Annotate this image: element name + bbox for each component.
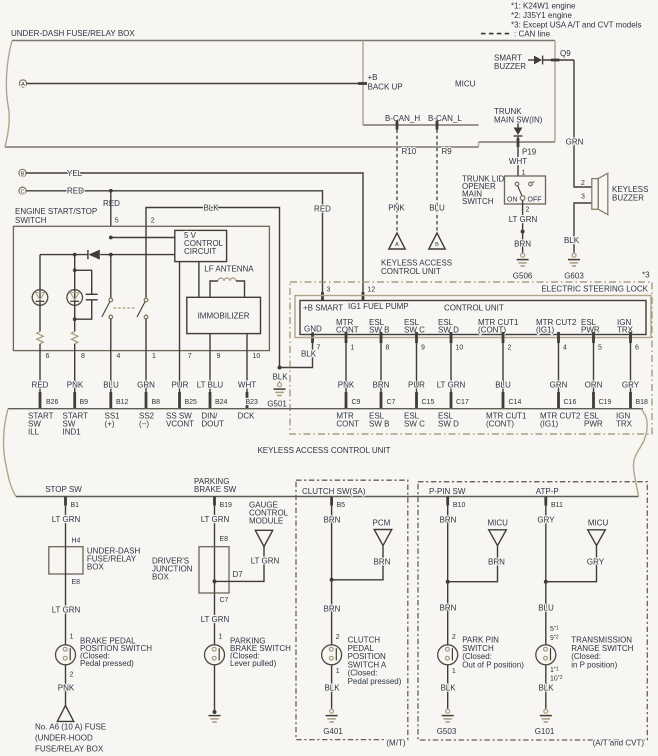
svg-text:PNK: PNK [388,204,405,213]
wire LT GRN to parking brake switch [214,593,216,645]
svg-text:CONTROL UNIT: CONTROL UNIT [381,267,441,276]
svg-text:B19: B19 [220,502,233,509]
svg-text:BRN: BRN [440,604,457,613]
B-CAN_H connector stub R10 [396,121,399,130]
ground G503 [442,708,454,722]
svg-text:PWR: PWR [584,420,603,429]
svg-text:BUZZER: BUZZER [494,62,526,71]
svg-text:B9: B9 [80,399,89,406]
svg-text:Pedal pressed): Pedal pressed) [80,659,134,668]
under-dash fuse/relay box outline (wavy left edge) [5,41,555,148]
svg-text:P19: P19 [522,148,537,157]
svg-text:1: 1 [452,668,456,675]
svg-text:B10: B10 [453,502,466,509]
svg-text:SW C: SW C [404,420,425,429]
svg-text:DOUT: DOUT [201,420,224,429]
svg-text:C7: C7 [387,399,396,406]
svg-text:LT GRN: LT GRN [52,515,81,524]
svg-text:7: 7 [188,353,192,360]
engine start/stop switch box [13,226,269,350]
svg-text:CONTROL UNIT: CONTROL UNIT [444,304,504,313]
svg-text:3: 3 [327,286,331,293]
svg-text:KEYLESS ACCESS CONTROL UNIT: KEYLESS ACCESS CONTROL UNIT [257,446,390,455]
svg-text:SWITCH: SWITCH [15,216,47,225]
ESL control unit outer box [295,296,651,338]
svg-text:2: 2 [70,672,74,679]
wire GRY atp-p [545,506,547,645]
node B [19,169,26,176]
M/T dashed box [296,480,408,739]
svg-text:LT GRN: LT GRN [201,515,230,524]
svg-text:VCONT: VCONT [166,420,194,429]
svg-text:PNK: PNK [67,381,84,390]
svg-text:G503: G503 [437,727,457,736]
svg-text:2: 2 [336,634,340,641]
svg-text:10*2: 10*2 [550,675,563,683]
svg-text:G603: G603 [564,272,584,281]
svg-text:BRAKE SW: BRAKE SW [194,485,237,494]
svg-text:SW C: SW C [404,326,425,335]
svg-text:ELECTRIC STEERING LOCK: ELECTRIC STEERING LOCK [541,285,648,294]
svg-text:BLU: BLU [103,381,119,390]
transmission range switch [536,645,556,665]
svg-text:10: 10 [253,353,261,360]
MICU triangle (p-pin) [489,530,507,546]
svg-text:*1: K24W1 engine: *1: K24W1 engine [511,1,576,10]
svg-text:Lever pulled): Lever pulled) [230,659,277,668]
switch gang dashed link [114,307,137,309]
svg-text:G101: G101 [535,727,555,736]
svg-text:2: 2 [508,345,512,352]
svg-text:(A/T and CVT): (A/T and CVT) [593,739,645,748]
wire BLK to G401 [331,665,333,708]
wire to gauge control module [215,547,265,582]
svg-text:6: 6 [46,353,50,360]
switch contact set 2 (pin2/pin1) [145,226,147,298]
svg-text:BRN: BRN [440,515,457,524]
PCM triangle [374,530,392,546]
splice junction G501 [278,366,282,370]
park pin switch [438,645,458,665]
svg-text:B12: B12 [116,399,129,406]
svg-text:R9: R9 [442,147,453,156]
svg-text:B-CAN_H: B-CAN_H [385,114,420,123]
svg-text:MICU: MICU [588,519,609,528]
splice dot clutch [330,578,334,582]
svg-text:STOP SW: STOP SW [45,485,82,494]
wire BRN to PCM [332,546,383,580]
pin 5 column ESL PWR [592,332,595,343]
svg-text:8: 8 [81,353,85,360]
svg-text:PUR: PUR [172,381,189,390]
CAN line legend dashes [481,33,510,35]
wire YEL from node B to ESL pin 12 [26,173,363,301]
svg-text:2: 2 [526,207,530,214]
wires engine switch to keyless connector [39,351,41,409]
svg-text:GRY: GRY [587,558,605,567]
svg-text:5: 5 [598,345,602,352]
chassis ground (parking brake) [209,710,221,722]
svg-text:G501: G501 [267,400,287,409]
pin 9 column ESL SW C [415,332,418,343]
svg-text:G506: G506 [513,272,533,281]
svg-text:C17: C17 [456,399,469,406]
svg-text:GRY: GRY [622,381,640,390]
pin 8 column ESL SW B [380,332,383,343]
svg-text:PNK: PNK [338,381,355,390]
electric steering lock dash-dot box [290,282,652,434]
svg-text:1: 1 [219,634,223,641]
svg-text:No. A6 (10 A) FUSE: No. A6 (10 A) FUSE [35,723,106,732]
svg-text:10: 10 [456,345,464,352]
ground G603 [568,252,580,266]
node A [19,80,26,87]
svg-text:+B: +B [368,73,378,82]
fuse destination triangle [57,706,73,722]
trunk main switch diode [517,124,519,128]
svg-text:GRN: GRN [566,137,584,146]
wire RED from node C to ESL pin 3 [26,191,322,301]
wire A to +B BACK UP [27,83,363,85]
connector triangle A [389,233,405,249]
svg-text:D7: D7 [233,570,244,579]
wire Q9 [543,59,574,61]
svg-text:SW B: SW B [369,326,389,335]
IMMOBILIZER box U [187,297,261,333]
wire RED to pin 5 [110,191,112,227]
svg-text:7: 7 [317,345,321,352]
gauge control module triangle [255,530,272,546]
pin 6 column IGN TRX [629,332,632,343]
svg-text:BRN: BRN [373,381,390,390]
svg-text:BLK: BLK [564,236,580,245]
splice dot trunk circuit [521,230,525,234]
svg-text:2: 2 [581,180,585,187]
svg-text:IG1 FUEL PUMP: IG1 FUEL PUMP [348,302,409,311]
svg-text:BLK: BLK [272,373,288,382]
svg-text:(UNDER-HOOD: (UNDER-HOOD [35,734,93,743]
svg-text:8: 8 [386,345,390,352]
resistor R (LED2) [71,332,78,344]
MICU sub-box partition [362,41,364,126]
svg-text:ORN: ORN [585,381,603,390]
svg-text:PWR: PWR [581,326,600,335]
connector stub B10 [446,497,449,506]
svg-text:CONT: CONT [336,420,359,429]
svg-text:BRN: BRN [514,240,531,249]
svg-text:BLK: BLK [324,684,340,693]
wire 5V box to pin 7 [179,262,181,351]
splice dot D7 [213,579,217,583]
svg-text:LT GRN: LT GRN [201,615,230,624]
connector stub at MICU edge [358,82,367,85]
keyless box bottom edge [16,496,639,498]
svg-text:B25: B25 [185,399,198,406]
B-CAN_L connector stub R9 [436,121,439,130]
under-dash fuse/relay box (fuse H4/E8) [49,547,83,574]
svg-text:GRN: GRN [137,381,155,390]
svg-text:YEL: YEL [67,169,83,178]
capacitor C [86,293,98,295]
svg-text:UNDER-DASH FUSE/RELAY BOX: UNDER-DASH FUSE/RELAY BOX [11,29,135,38]
svg-text:BRN: BRN [374,558,391,567]
wire PNK to fuse [65,665,67,706]
svg-text:LT GRN: LT GRN [251,557,280,566]
parking brake switch [205,645,225,665]
svg-text:CIRCUIT: CIRCUIT [184,247,217,256]
keyless buzzer pin3 wire [574,203,592,252]
svg-text:MODULE: MODULE [249,516,283,525]
svg-text:B8: B8 [152,399,161,406]
svg-text:A: A [21,82,25,88]
svg-text:2: 2 [452,634,456,641]
wire BRN to G506 [522,232,524,253]
svg-text:GRY: GRY [537,515,555,524]
CAN wire R10 (dashed) [396,130,398,234]
svg-text:PCM: PCM [373,519,391,528]
svg-text:B5: B5 [337,502,346,509]
svg-text:9: 9 [421,345,425,352]
wire to LED2 [74,255,76,332]
wire GRY to MICU [546,546,597,582]
svg-text:BRN: BRN [324,605,341,614]
svg-text:RED: RED [67,187,84,196]
svg-text:SW D: SW D [438,420,459,429]
svg-text:B26: B26 [46,399,59,406]
svg-text:1: 1 [152,353,156,360]
svg-text:OFF: OFF [528,197,542,204]
svg-text:*2: J35Y1 engine: *2: J35Y1 engine [511,11,572,20]
clutch pedal position switch A [322,645,342,665]
resistor R (LED1) [37,332,44,344]
ground G101 [540,708,552,722]
wire to chassis ground [214,665,216,712]
svg-text:B11: B11 [551,502,563,509]
keyless buzzer speaker symbol [592,179,598,210]
connector stub ESL pin 3 [321,292,324,301]
svg-text:E8: E8 [72,579,81,586]
svg-text:BLU: BLU [429,204,445,213]
connector stub Q9 [551,59,560,62]
svg-text:4: 4 [563,345,567,352]
wire BRN to MICU [448,546,498,582]
ESL control unit inner box [300,301,646,335]
5V control circuit box [175,230,227,261]
pin 4 column MTR CUT2 [557,332,560,343]
svg-text:IND1: IND1 [63,428,82,437]
ground G401 [326,708,338,722]
brake pedal position switch [56,645,76,665]
svg-text:SWITCH: SWITCH [462,197,494,206]
splice dot pin5 branch [109,189,113,193]
svg-text:4: 4 [117,353,121,360]
svg-text:WHT: WHT [238,381,256,390]
svg-text:BACK UP: BACK UP [368,83,403,92]
svg-text:(M/T): (M/T) [386,739,405,748]
trunk lid opener main switch box [505,176,546,204]
splice dots [109,236,113,240]
svg-text:A: A [395,242,399,248]
svg-text:1: 1 [336,668,340,675]
svg-text:(+): (+) [105,420,115,429]
svg-text:BUZZER: BUZZER [612,194,644,203]
svg-text:*3: *3 [642,271,650,280]
immobilizer pin 10 wire [246,334,248,351]
svg-text:6: 6 [635,345,639,352]
svg-text:(IG1): (IG1) [536,326,555,335]
svg-text:C9: C9 [352,399,361,406]
svg-text:SW D: SW D [438,326,459,335]
A/T and CVT dash-dot box [418,482,647,740]
svg-text:(−): (−) [139,420,149,429]
wire 5V box to immobilizer [198,262,200,298]
driver's junction box [199,547,229,593]
svg-text:12: 12 [368,286,376,293]
svg-text:BLK: BLK [203,203,219,212]
svg-text:9*2: 9*2 [550,635,559,643]
svg-text:LT BLU: LT BLU [197,381,224,390]
svg-text:PUR: PUR [408,381,425,390]
connector stub B1 [64,497,67,506]
connector stub B11 [544,497,547,506]
svg-text:MICU: MICU [488,519,509,528]
svg-text:C7: C7 [220,597,229,604]
svg-text:BLU: BLU [495,381,511,390]
svg-text:: CAN line: : CAN line [514,30,551,39]
node C [19,187,26,194]
svg-text:RED: RED [32,381,49,390]
wire GRN down to keyless buzzer [574,60,592,187]
svg-text:BOX: BOX [87,563,105,572]
svg-text:BLK: BLK [440,684,456,693]
wire LT GRN to brake pedal switch [65,574,67,645]
svg-text:ENGINE START/STOP: ENGINE START/STOP [15,207,97,216]
connector stub B5 [330,497,333,506]
wire to LED1 [39,255,41,332]
svg-text:ATP-P: ATP-P [536,487,559,496]
svg-text:C: C [20,189,24,195]
wire BLK pin 2 to G501 [146,208,280,368]
svg-text:*3: Except USA A/T and CVT mod: *3: Except USA A/T and CVT models [511,20,641,29]
svg-text:G401: G401 [323,727,343,736]
LED1 start switch illumination [32,290,48,306]
connector stub P19 [517,138,520,147]
svg-text:E8: E8 [220,536,229,543]
svg-text:1: 1 [70,634,74,641]
svg-text:SW B: SW B [369,420,389,429]
svg-text:BRN: BRN [324,515,341,524]
svg-text:C15: C15 [422,399,435,406]
svg-text:9: 9 [217,353,221,360]
svg-text:ON: ON [507,197,518,204]
capacitor branch wires [75,270,92,294]
CAN wire R9 (dashed) [436,130,438,234]
svg-text:BLK: BLK [301,350,317,359]
svg-text:P-PIN SW: P-PIN SW [429,487,466,496]
svg-text:Pedal pressed): Pedal pressed) [348,677,402,686]
svg-text:Out of P position): Out of P position) [462,660,524,669]
svg-text:5*1: 5*1 [550,626,559,634]
svg-text:3: 3 [581,194,585,201]
wire BLK to G503 [447,665,449,708]
connector stub ESL pin 12 [362,292,365,301]
connector stub B19 [213,497,216,506]
svg-text:1: 1 [351,345,355,352]
keyless box wavy right edge [633,409,647,497]
svg-text:1*1: 1*1 [550,667,559,675]
LED2 start switch indicator [67,290,83,306]
keyless box wavy left edge [4,409,16,497]
connector stubs B26 B9 B12 B8 B25 B24 B23 [39,392,42,409]
wire LT GRN parking brake [214,506,216,594]
diode (engine switch) [87,250,89,259]
svg-text:BRN: BRN [488,558,505,567]
svg-text:B-CAN_L: B-CAN_L [428,114,462,123]
wire LT GRN trunk switch [522,200,524,229]
svg-text:TRX: TRX [616,420,633,429]
splice dot atp-p [544,580,548,584]
svg-text:+B SMART: +B SMART [303,303,343,312]
wire LT GRN stop switch [65,506,67,547]
connector triangle B [429,233,445,249]
svg-text:ILL: ILL [28,428,40,437]
svg-text:RED: RED [314,204,331,213]
svg-text:LT GRN: LT GRN [52,606,81,615]
svg-text:B18: B18 [636,399,649,406]
svg-text:(CONT): (CONT) [486,420,514,429]
svg-text:BOX: BOX [152,573,170,582]
svg-text:5: 5 [115,218,119,225]
ground G506 [517,252,529,266]
svg-text:C19: C19 [599,399,612,406]
immobilizer pin 9 wire [209,334,211,351]
svg-text:2: 2 [151,218,155,225]
svg-text:GRN: GRN [550,381,568,390]
wire BLK to G101 [545,665,547,708]
svg-text:RED: RED [103,199,120,208]
svg-text:GND: GND [304,325,322,334]
svg-text:B23: B23 [246,399,259,406]
pin 10 column ESL SW D [450,332,453,343]
wire BRN clutch [331,506,333,645]
svg-text:B: B [435,242,439,248]
internal wire to 5V circuit [111,237,175,239]
keyless box top edge [8,408,643,410]
svg-text:IMMOBILIZER: IMMOBILIZER [198,312,250,321]
svg-text:CLUTCH SW(SA): CLUTCH SW(SA) [302,487,366,496]
ground G501 [274,382,286,396]
svg-text:B1: B1 [71,502,80,509]
LF antenna coil [210,281,218,297]
svg-text:PNK: PNK [58,684,75,693]
svg-text:BLU: BLU [538,604,554,613]
svg-text:BLK: BLK [538,684,554,693]
pin 1 column MTR CONT [345,332,348,343]
trunk switch contacts [515,182,519,186]
svg-text:WHT: WHT [509,157,527,166]
MICU triangle (atp-p) [588,530,606,546]
switch contact set 1 (pin5/pin4) [110,255,112,299]
ESL pin7 BLK to G501 [311,332,314,343]
svg-text:LF ANTENNA: LF ANTENNA [204,265,254,274]
svg-text:DCK: DCK [238,412,256,421]
svg-text:FUSE/RELAY BOX: FUSE/RELAY BOX [35,745,104,754]
svg-text:MAIN SW(IN): MAIN SW(IN) [494,116,543,125]
svg-text:C16: C16 [564,399,577,406]
svg-text:H4: H4 [72,538,81,545]
svg-text:B24: B24 [215,399,228,406]
svg-text:C14: C14 [509,399,522,406]
